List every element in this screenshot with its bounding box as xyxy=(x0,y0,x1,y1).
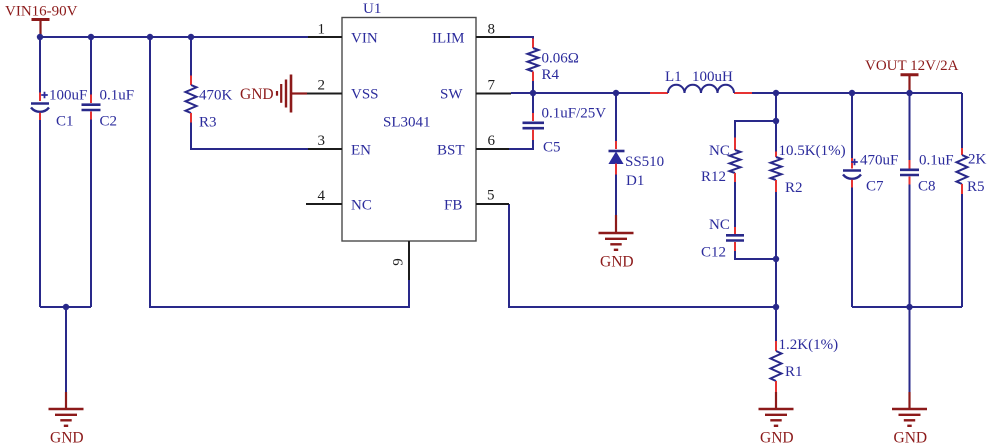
pin 8 ILIM stub xyxy=(476,36,510,38)
wire stem to right ground xyxy=(909,307,911,409)
wire SW node horizontal xyxy=(511,92,962,94)
wire top VIN rail xyxy=(40,36,309,38)
wire bottom-right rail xyxy=(852,306,962,308)
svg-text:NC: NC xyxy=(709,143,730,159)
svg-text:470uF: 470uF xyxy=(860,153,898,169)
wire R1 top lead xyxy=(775,307,777,351)
svg-text:100uH: 100uH xyxy=(692,69,733,85)
svg-text:R2: R2 xyxy=(785,180,803,196)
wire x150 riser VIN to pad xyxy=(150,37,409,307)
wire stem to left ground xyxy=(65,307,67,409)
svg-text:R4: R4 xyxy=(542,67,560,83)
svg-text:U1: U1 xyxy=(363,1,381,17)
svg-text:2: 2 xyxy=(318,78,326,94)
wire R2 bottom lead xyxy=(775,180,777,307)
wire R3 bottom lead to EN xyxy=(191,113,309,149)
resistor R2 10.5K xyxy=(771,157,782,180)
svg-text:470K: 470K xyxy=(199,88,233,104)
capacitor C5 (0.1uF/25V) xyxy=(523,123,545,128)
junction SW at D1 xyxy=(613,90,619,96)
wire C12 bottom lead xyxy=(735,242,776,259)
junction C12 to divider xyxy=(773,256,779,262)
junction C8/VOUT top xyxy=(906,90,912,96)
svg-text:3: 3 xyxy=(318,133,326,149)
svg-text:VIN: VIN xyxy=(351,31,378,47)
capacitor C2 (0.1uF) xyxy=(82,105,101,110)
wire C2 bottom lead xyxy=(90,112,92,308)
svg-text:NC: NC xyxy=(351,198,372,214)
svg-text:2K: 2K xyxy=(968,152,987,168)
junction at C1 top xyxy=(37,34,43,40)
svg-text:NC: NC xyxy=(709,217,730,233)
svg-text:GND: GND xyxy=(760,430,794,447)
svg-text:1: 1 xyxy=(318,22,326,38)
svg-text:R12: R12 xyxy=(701,169,726,185)
svg-text:C5: C5 xyxy=(543,140,561,156)
svg-text:0.1uF: 0.1uF xyxy=(919,153,954,169)
junction bottom-right xyxy=(906,304,912,310)
wire R5 bottom lead xyxy=(961,184,963,307)
wire R5 top lead xyxy=(961,93,963,155)
junction bottom-left xyxy=(63,304,69,310)
junction at C2 top xyxy=(88,34,94,40)
svg-text:6: 6 xyxy=(488,133,496,149)
wire bottom-left joining C1 C2 xyxy=(40,306,91,308)
svg-text:C12: C12 xyxy=(701,245,726,261)
wire C5 top lead xyxy=(532,93,534,121)
ground symbol left xyxy=(49,409,84,426)
wire R3 top lead xyxy=(190,37,192,85)
svg-text:1.2K(1%): 1.2K(1%) xyxy=(779,337,839,353)
wire ILIM to R4 top xyxy=(510,37,533,39)
capacitor C1 (polarized 100uF) xyxy=(31,92,49,112)
wire C1 top lead xyxy=(39,37,41,101)
svg-text:VIN16-90V: VIN16-90V xyxy=(5,4,78,20)
junction C7 top xyxy=(849,90,855,96)
resistor R4 0.06ohm xyxy=(528,48,539,72)
diode D1 SS510 (schottky) xyxy=(609,151,625,164)
pin 1 VIN stub xyxy=(308,36,342,38)
wire output node down through R2 to FB node xyxy=(775,93,777,157)
svg-text:0.1uF/25V: 0.1uF/25V xyxy=(542,106,607,122)
svg-text:SW: SW xyxy=(440,87,463,103)
svg-text:0.1uF: 0.1uF xyxy=(100,88,135,104)
svg-text:7: 7 xyxy=(488,78,496,94)
svg-text:R3: R3 xyxy=(199,115,217,131)
ground symbol under R1 xyxy=(759,409,794,426)
resistor R5 2K xyxy=(957,155,968,184)
svg-text:ILIM: ILIM xyxy=(432,31,465,47)
svg-text:VOUT 12V/2A: VOUT 12V/2A xyxy=(865,58,959,74)
svg-text:SS510: SS510 xyxy=(625,154,664,170)
junction at x150 riser xyxy=(147,34,153,40)
svg-text:C7: C7 xyxy=(866,179,884,195)
svg-text:SL3041: SL3041 xyxy=(383,115,431,131)
wire C8 bottom lead xyxy=(909,177,911,308)
svg-text:100uF: 100uF xyxy=(49,88,87,104)
capacitor C8 (0.1uF) xyxy=(900,170,919,175)
svg-text:L1: L1 xyxy=(665,69,682,85)
svg-text:GND: GND xyxy=(240,86,274,103)
pin 6 BST stub xyxy=(476,148,509,150)
svg-text:D1: D1 xyxy=(626,173,644,189)
svg-text:8: 8 xyxy=(488,22,496,38)
svg-text:EN: EN xyxy=(351,143,371,159)
junction L1 output node xyxy=(773,90,779,96)
ground symbol at VSS (sideways earth) xyxy=(277,75,307,113)
pin 3 EN stub xyxy=(308,148,342,150)
resistor R12 (NC) xyxy=(730,150,741,173)
wire R12 branch top xyxy=(735,121,776,150)
junction R12 branch top xyxy=(773,118,779,124)
svg-text:VSS: VSS xyxy=(351,87,379,103)
resistor R1 1.2K xyxy=(771,351,782,381)
R4 bottom lead xyxy=(532,72,534,94)
svg-text:C8: C8 xyxy=(918,179,936,195)
wire C2 top lead xyxy=(90,37,92,103)
capacitor C12 (NC) xyxy=(726,235,744,240)
svg-text:R5: R5 xyxy=(967,179,985,195)
svg-text:4: 4 xyxy=(318,188,326,204)
wire C7 bottom lead xyxy=(851,180,853,307)
svg-text:C1: C1 xyxy=(56,114,74,130)
power flag VOUT xyxy=(901,75,919,93)
R4 top lead xyxy=(532,39,534,49)
svg-text:BST: BST xyxy=(437,143,465,159)
wire R12 bottom lead xyxy=(734,173,736,234)
pin 9 pad stub xyxy=(408,241,410,280)
wire D1 top lead xyxy=(615,93,617,149)
power flag VIN xyxy=(32,20,50,38)
svg-text:FB: FB xyxy=(444,198,462,214)
pin 4 NC stub xyxy=(306,203,342,205)
junction FB node xyxy=(773,304,779,310)
wire C8 top lead xyxy=(909,93,911,169)
inductor L1 100uH xyxy=(668,85,734,93)
svg-text:GND: GND xyxy=(50,430,84,447)
ground symbol under D1 xyxy=(599,233,634,250)
op-amp U1 SL3041 body xyxy=(342,18,476,242)
pin 5 FB stub xyxy=(476,203,509,205)
wire C7 top lead xyxy=(851,93,853,169)
wire D1 bottom lead xyxy=(615,164,617,234)
capacitor C7 (polarized 470uF) xyxy=(843,159,861,179)
pin 2 VSS stub xyxy=(307,93,342,95)
wire R1 bottom lead xyxy=(775,381,777,409)
wire C1 bottom lead xyxy=(39,113,41,307)
wire C5 bottom lead to BST xyxy=(509,130,533,149)
svg-text:10.5K(1%): 10.5K(1%) xyxy=(779,143,846,159)
ground symbol right xyxy=(892,409,927,426)
svg-text:0.06Ω: 0.06Ω xyxy=(542,51,579,67)
svg-text:R1: R1 xyxy=(785,364,803,380)
resistor R3 470K xyxy=(186,85,197,113)
pin 7 SW stub xyxy=(476,93,511,95)
svg-text:C2: C2 xyxy=(100,114,118,130)
svg-text:GND: GND xyxy=(600,254,634,271)
wire FB run xyxy=(509,204,776,307)
svg-text:9: 9 xyxy=(391,258,407,266)
junction at R3 top xyxy=(188,34,194,40)
svg-text:5: 5 xyxy=(487,188,495,204)
svg-text:GND: GND xyxy=(894,430,928,447)
junction SW at R4/C5 xyxy=(530,90,536,96)
